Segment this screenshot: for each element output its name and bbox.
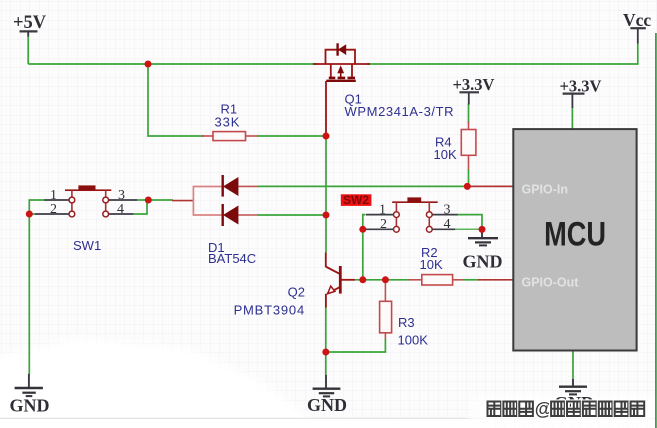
- node SW2 GND junction: [479, 226, 486, 233]
- MCU U1: [513, 129, 636, 350]
- wire MCU bottom to GND: [572, 351, 574, 380]
- svg-text:WPM2341A-3/TR: WPM2341A-3/TR: [345, 104, 455, 119]
- svg-text:2: 2: [50, 202, 57, 217]
- svg-text:GND: GND: [463, 251, 503, 271]
- node +5V rail junction: [145, 61, 152, 68]
- svg-text:R3: R3: [398, 315, 415, 330]
- svg-text:+5V: +5V: [13, 13, 47, 33]
- svg-text:GPIO-In: GPIO-In: [522, 183, 569, 197]
- wire R1 pins: [202, 135, 259, 137]
- switch SW2: [341, 193, 458, 232]
- svg-text:3: 3: [118, 188, 125, 203]
- white overlay blob: [0, 338, 657, 428]
- wire GPIO-In row: [238, 185, 514, 187]
- node SW1 GND junction: [26, 211, 33, 218]
- wire R1 to gate net: [258, 135, 326, 137]
- wire bottom diode row: [238, 214, 326, 216]
- resistor R1: [213, 102, 246, 141]
- svg-text:Vcc: Vcc: [623, 10, 651, 30]
- wire R4 branch: [468, 104, 470, 187]
- wire R1 feed vertical: [148, 64, 204, 136]
- wire +5V rail left: [28, 63, 317, 65]
- svg-text:33K: 33K: [215, 115, 241, 130]
- svg-text:4: 4: [117, 202, 124, 217]
- ground MCU: [554, 379, 594, 413]
- power +3.3V (MCU): [560, 77, 602, 109]
- resistor R3: [380, 301, 429, 347]
- mosfet Q1: [313, 43, 454, 136]
- svg-text:10K: 10K: [434, 147, 457, 162]
- ground left: [10, 374, 50, 416]
- wire R3 branch: [326, 280, 385, 352]
- wire Vcc rail right: [367, 63, 638, 65]
- node SW1/D1 junction: [145, 197, 152, 204]
- wire SW2 left drop: [362, 215, 366, 280]
- power +5V: [13, 13, 47, 37]
- power Vcc: [623, 10, 651, 44]
- node base junction: [359, 276, 366, 283]
- svg-text:+3.3V: +3.3V: [453, 75, 495, 94]
- node diode/gate junction: [323, 212, 330, 219]
- resistor R2: [420, 245, 453, 285]
- power +3.3V (R4): [453, 75, 495, 105]
- node R4/GPIO-In junction: [464, 183, 471, 190]
- svg-text:Q2: Q2: [288, 285, 305, 300]
- diode D1: [193, 175, 256, 266]
- svg-text:GND: GND: [10, 396, 50, 416]
- svg-text:10K: 10K: [420, 257, 443, 272]
- svg-text:GPIO-Out: GPIO-Out: [522, 275, 580, 289]
- svg-text:GND: GND: [307, 395, 347, 415]
- svg-text:100K: 100K: [398, 333, 429, 348]
- watermark 搜狐号@武汉广昇科技: [488, 399, 645, 419]
- transistor Q2: [234, 253, 355, 318]
- wire SW1 left to GND: [29, 200, 45, 374]
- ground SW2: [463, 229, 503, 271]
- wire right edge: [655, 33, 657, 428]
- switch SW1: [35, 185, 137, 253]
- wire Vcc drop: [637, 43, 639, 65]
- svg-text:SW2: SW2: [343, 193, 369, 207]
- node gate/R1 junction: [323, 133, 330, 140]
- wire SW1 pin3 junction: [133, 200, 148, 214]
- wire gate net vertical: [325, 136, 327, 253]
- wire +5V drop: [27, 33, 29, 64]
- wire SW1 to D1 input: [148, 199, 193, 202]
- svg-text:BAT54C: BAT54C: [208, 251, 256, 266]
- svg-text:MCU: MCU: [544, 215, 606, 254]
- resistor R4: [434, 130, 476, 163]
- wire base row: [354, 279, 514, 281]
- svg-text:SW1: SW1: [73, 238, 101, 253]
- wire emitter to GND: [325, 307, 327, 376]
- svg-text:1: 1: [50, 188, 57, 203]
- node R3 top junction: [382, 276, 389, 283]
- wire SW2 right to GND: [455, 215, 482, 230]
- svg-text:PMBT3904: PMBT3904: [234, 303, 305, 318]
- svg-text:1: 1: [379, 202, 386, 217]
- svg-text:4: 4: [444, 217, 451, 232]
- wire 3.3V to MCU top: [571, 108, 573, 131]
- node SW2 left junction: [359, 226, 366, 233]
- node emitter/R3 junction: [322, 349, 329, 356]
- svg-text:2: 2: [380, 217, 387, 232]
- svg-text:3: 3: [444, 202, 451, 217]
- ground middle: [307, 375, 347, 415]
